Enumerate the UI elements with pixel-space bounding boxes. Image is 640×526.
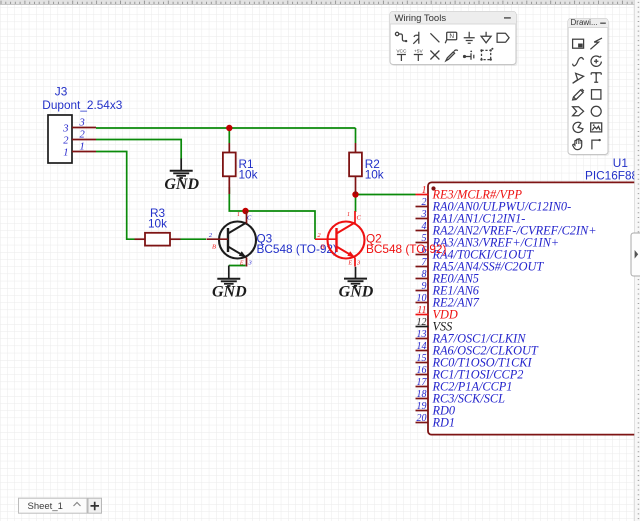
U1 pin 18 RC3/SCK/SCL [416, 389, 506, 406]
U1 pin 4 RA2/AN2/VREF-/CVREF/C2IN+ [416, 221, 597, 238]
drawing icon: arc [591, 56, 601, 66]
svg-text:15: 15 [417, 353, 427, 364]
drawing icon: image [591, 123, 602, 132]
drawing icon: polygon [573, 107, 584, 116]
svg-text:C: C [247, 215, 252, 222]
svg-text:11: 11 [417, 305, 426, 316]
svg-text:GND: GND [339, 284, 374, 301]
drawing icon: drag/hand [573, 139, 582, 150]
svg-text:RD1: RD1 [432, 416, 456, 430]
svg-text:+5V: +5V [414, 48, 423, 54]
drawing icon: pencil [573, 89, 584, 100]
svg-text:1: 1 [347, 212, 350, 218]
svg-text:1: 1 [422, 185, 427, 196]
wire R1 top drop [228, 128, 230, 143]
toolbar icon: net port [497, 33, 509, 42]
ground GND at J3 pin 2 [164, 159, 199, 193]
right edge ruler strip [635, 0, 640, 521]
wire Q3 emitter to GND [229, 265, 246, 267]
wire R2 top drop [355, 128, 357, 143]
U1 pin 16 RC1/T1OSI/CCP2 [416, 365, 524, 382]
svg-text:E: E [239, 261, 244, 267]
U1 pin 5 RA3/AN3/VREF+/C1IN+ [416, 233, 560, 250]
sheet tab Sheet_1 [19, 498, 102, 513]
U1 pin 17 RC2/P1A/CCP1 [416, 377, 513, 394]
U1 pin 14 RA6/OSC2/CLKOUT [416, 341, 539, 358]
connector J3 Dupont_2.54x3 [42, 85, 122, 163]
svg-text:N: N [449, 33, 454, 40]
svg-text:2: 2 [80, 130, 86, 141]
wire R2 bottom node to Q2 collector [355, 195, 357, 213]
drawing icon: arrow [573, 73, 584, 83]
svg-text:3: 3 [79, 118, 85, 129]
toolbar icon: VCC flag [396, 48, 407, 61]
IC U1 PIC16F887 [428, 156, 640, 435]
right panel expand handle [631, 233, 640, 276]
toolbar icon: group/select [480, 48, 493, 61]
ground GND below Q2 [339, 267, 374, 301]
svg-text:1: 1 [63, 148, 68, 159]
toolbar icon: voltage probe [463, 51, 474, 60]
U1 pin 13 RA7/OSC1/CLKIN [416, 329, 527, 346]
U1 pin 10 RE2/AN7 [416, 293, 480, 310]
toolbar icon: no connect [430, 51, 439, 60]
U1 pin 7 RA5/AN4/SS#/C2OUT [416, 257, 545, 274]
svg-text:1: 1 [80, 142, 85, 153]
svg-text:B: B [321, 244, 325, 251]
svg-text:GND: GND [212, 284, 247, 301]
U1 pin 3 RA1/AN1/C12IN1- [416, 209, 526, 226]
svg-text:B: B [212, 244, 216, 251]
svg-text:Wiring Tools: Wiring Tools [395, 13, 447, 24]
drawing icon: ellipse [591, 106, 601, 116]
toolbar icon: wire [395, 32, 407, 42]
svg-text:10k: 10k [148, 216, 167, 230]
U1 pin 6 RA4/T0CKI/C1OUT [416, 245, 535, 262]
toolbar icon: bus entry [430, 33, 439, 42]
drawing icon: canvas [573, 39, 584, 48]
Drawing Tools toolbar [568, 18, 610, 156]
svg-text:3: 3 [421, 209, 427, 220]
svg-text:3: 3 [62, 124, 68, 135]
junction node at R2 bottom [352, 191, 358, 197]
resistor R1 10k [223, 143, 258, 194]
resistor R3 10k [135, 206, 181, 246]
svg-text:Dupont_2.54x3: Dupont_2.54x3 [42, 98, 122, 112]
toolbar icon: net label [445, 32, 457, 43]
U1 pin 9 RE1/AN6 [416, 281, 480, 298]
svg-text:8: 8 [422, 269, 427, 280]
Wiring Tools toolbar [390, 12, 518, 67]
svg-text:E: E [347, 261, 352, 267]
junction node at R1 top [226, 125, 232, 131]
drawing icon: polyline [590, 38, 602, 49]
toolbar icon: probe pen [446, 50, 458, 61]
svg-text:BC548 (TO-92): BC548 (TO-92) [366, 242, 446, 256]
svg-text:10k: 10k [239, 167, 258, 181]
U1 pin 20 RD1 [416, 413, 456, 430]
svg-text:VCC: VCC [396, 48, 407, 54]
svg-text:C: C [357, 215, 362, 222]
toolbar icon: earth ground [481, 32, 491, 43]
svg-text:2: 2 [63, 136, 69, 147]
wire R3 to Q3 base [181, 238, 207, 240]
svg-text:16: 16 [417, 365, 427, 376]
toolbar icon: +5V flag [414, 48, 424, 61]
svg-text:12: 12 [417, 317, 427, 328]
transistor Q2 BC548 (TO-92), selected/highlighted [315, 211, 446, 267]
U1 pin 1 RE3/MCLR#/VPP [416, 185, 523, 202]
U1 pin 12 VSS [416, 317, 453, 334]
ground GND below Q3 [212, 266, 247, 301]
svg-text:1: 1 [237, 212, 240, 218]
svg-text:J3: J3 [55, 85, 68, 99]
svg-text:10k: 10k [365, 167, 384, 181]
top ruler [0, 0, 640, 4]
U1 pin 11 VDD [416, 305, 458, 322]
toolbar icon: bus [413, 32, 419, 44]
svg-text:17: 17 [417, 377, 428, 388]
wire R2 bottom node to U1 pin 1 [356, 194, 416, 196]
svg-text:BC548 (TO-92): BC548 (TO-92) [257, 242, 337, 256]
svg-text:Sheet_1: Sheet_1 [28, 501, 63, 512]
svg-text:9: 9 [422, 281, 427, 292]
svg-text:GND: GND [164, 176, 199, 193]
svg-text:10: 10 [417, 293, 427, 304]
drawing icon: pie [573, 122, 583, 132]
U1 pin 2 RA0/AN0/ULPWU/C12IN0- [416, 197, 572, 214]
wire J3 pin 2 to GND [96, 140, 181, 160]
resistor R2 10k [349, 143, 384, 194]
U1 pin 19 RD0 [416, 401, 456, 418]
U1 pin 15 RC0/T1OSO/T1CKI [416, 353, 533, 370]
svg-text:19: 19 [417, 401, 427, 412]
svg-text:4: 4 [422, 221, 427, 232]
wire net from J3 pin 3 to R1 and R2 tops [96, 127, 356, 129]
drawing icon: rectangle [592, 90, 601, 99]
drawing icon: connector line [592, 139, 601, 150]
wire J3 pin 1 to R3 [96, 152, 135, 240]
drawing icon: text [591, 73, 601, 83]
drawing icon: bezier [573, 58, 584, 66]
svg-text:2: 2 [422, 197, 427, 208]
svg-text:PIC16F887: PIC16F887 [585, 169, 640, 183]
svg-text:13: 13 [417, 329, 427, 340]
svg-text:20: 20 [417, 413, 427, 424]
svg-text:Drawi...: Drawi... [571, 18, 598, 27]
svg-text:14: 14 [417, 341, 427, 352]
transistor Q3 BC548 (TO-92) [207, 211, 337, 267]
svg-text:18: 18 [417, 389, 427, 400]
U1 pin 8 RE0/AN5 [416, 269, 479, 286]
junction node at Q3 collector [242, 208, 248, 214]
wire R1 bottom to Q3 collector node and Q2 base [229, 187, 315, 239]
toolbar icon: ground [464, 32, 475, 43]
